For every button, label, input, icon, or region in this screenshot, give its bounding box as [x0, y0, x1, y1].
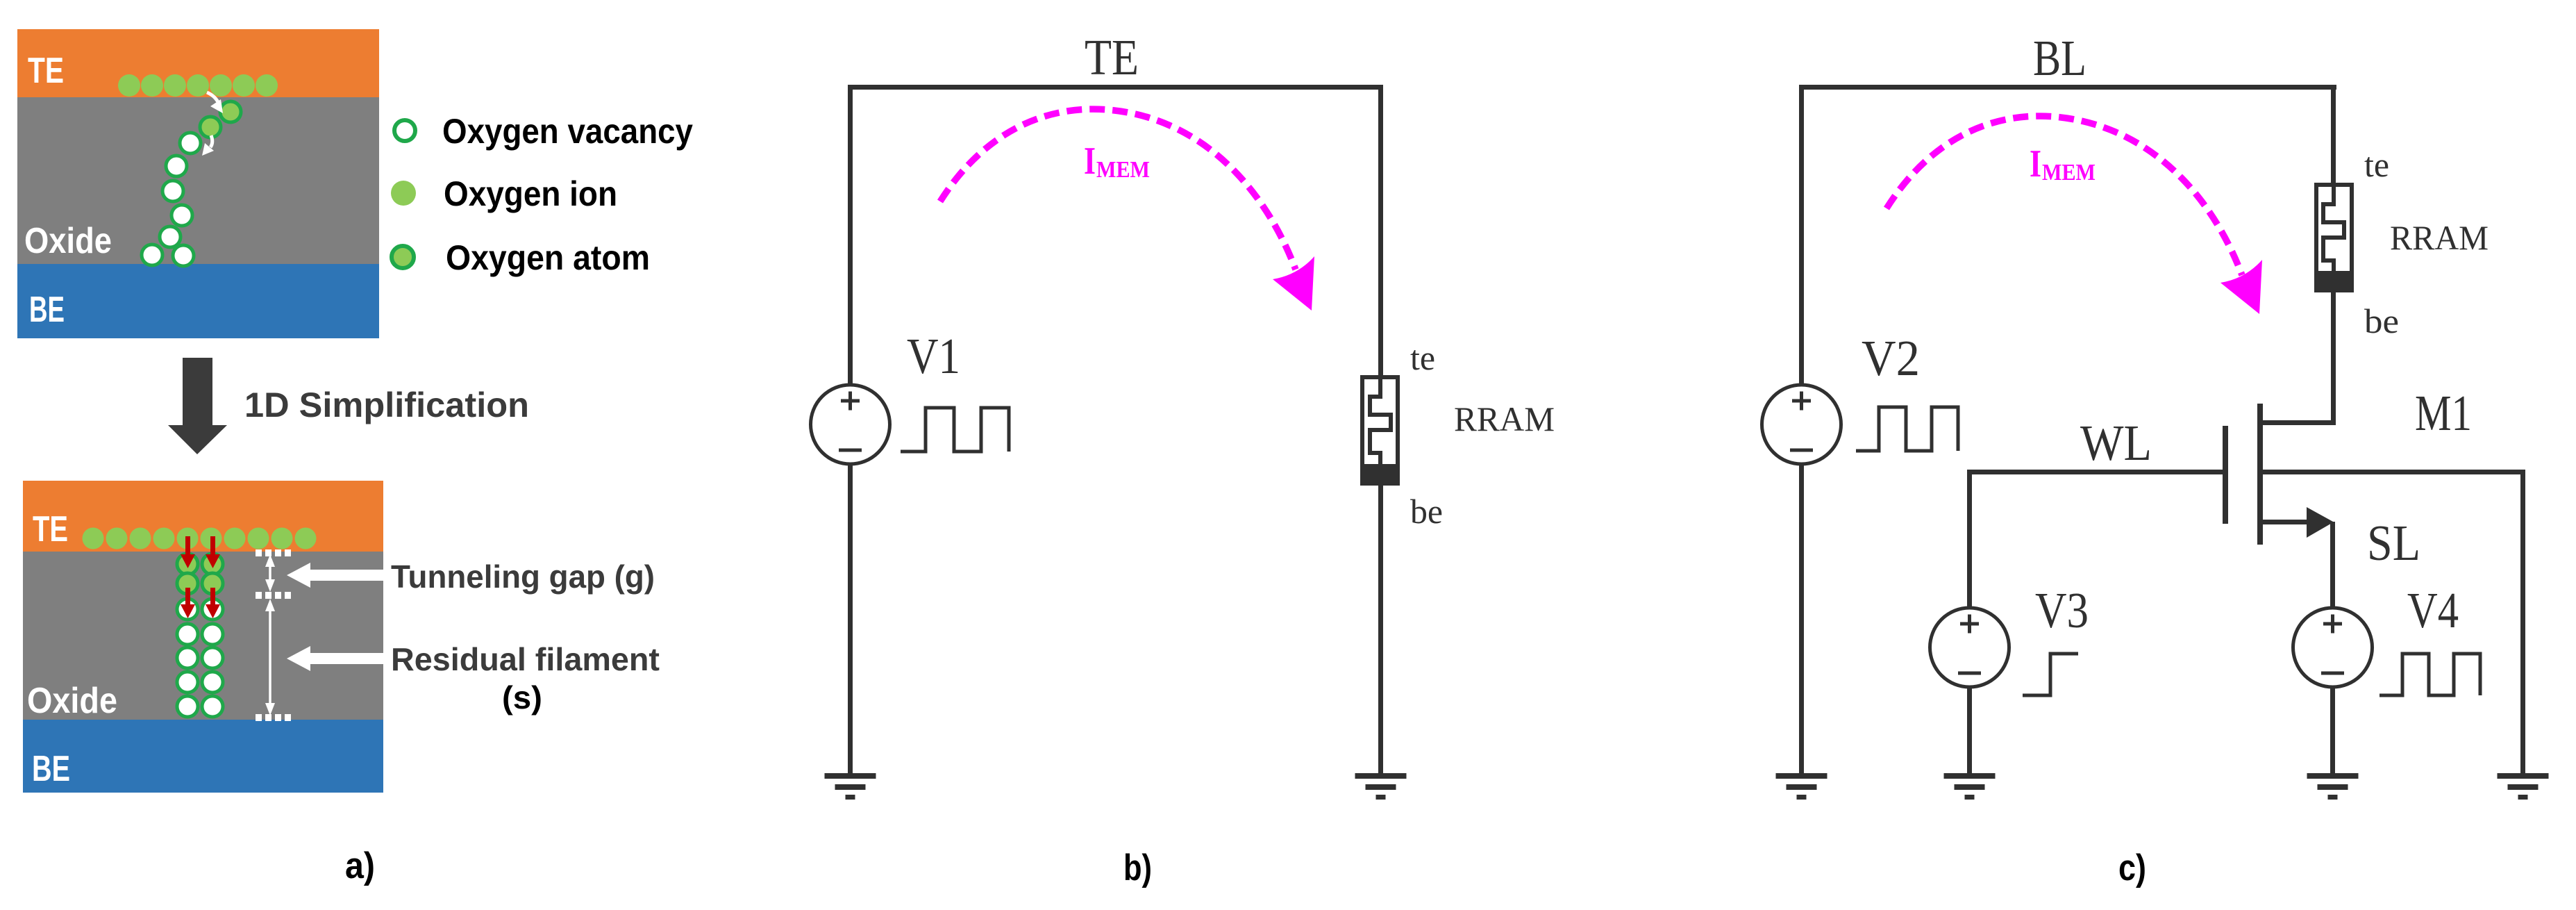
wire: right vertical to RRAM: [1378, 90, 1383, 375]
M1 channel bar: [2257, 404, 2263, 545]
oxygen ion row (upper stack): [118, 74, 278, 97]
svg-text:TE: TE: [28, 51, 64, 91]
red arrows pair 1 (ion to atom): [181, 536, 220, 568]
white block arrow (residual filament): [287, 646, 384, 671]
voltage source V2: [1762, 385, 1841, 464]
wire: V2 to ground: [1799, 464, 1804, 773]
memristor RRAM (panel c): [2316, 185, 2352, 290]
svg-text:(s): (s): [502, 679, 542, 715]
svg-text:BE: BE: [32, 749, 70, 789]
white dashed tick row (bottom boundary): [256, 714, 291, 721]
ground (below V2): [1776, 773, 1828, 800]
svg-text:V4: V4: [2407, 582, 2459, 638]
svg-text:WL: WL: [2080, 415, 2152, 471]
svg-text:SL: SL: [2367, 515, 2420, 571]
IMEM dashed current arc (panel b): [940, 109, 1296, 270]
ground (below V1): [825, 773, 876, 800]
legend: oxygen vacancy symbol: [394, 120, 415, 141]
PANEL B placeholder: [811, 29, 1555, 888]
svg-text:a): a): [345, 845, 375, 886]
legend: oxygen atom symbol: [392, 246, 414, 268]
wire: left vertical to V1: [848, 90, 853, 385]
wire: RRAM to drain of M1: [2331, 292, 2336, 425]
svg-text:I: I: [2030, 142, 2041, 185]
white dashed tick row (top boundary): [256, 549, 291, 556]
ground (below V3): [1944, 773, 1996, 800]
svg-text:I: I: [1084, 140, 1096, 183]
svg-text:be: be: [2364, 301, 2399, 340]
svg-text:b): b): [1123, 847, 1152, 888]
PANEL C placeholder: [1762, 30, 2549, 888]
lower stack Oxide layer (gray): [23, 552, 383, 720]
svg-text:RRAM: RRAM: [2390, 218, 2489, 257]
IMEM arrowhead (panel c): [2220, 260, 2262, 314]
filament columns: oxygen atoms (lower stack): [177, 554, 223, 594]
wire: WL horizontal: [1967, 470, 2223, 474]
svg-text:Oxide: Oxide: [24, 221, 112, 261]
svg-text:TE: TE: [33, 509, 68, 549]
upper stack TE layer (orange): [17, 29, 379, 97]
M1 drain stub: [2257, 420, 2336, 425]
svg-text:Oxygen atom: Oxygen atom: [446, 238, 650, 277]
legend: oxygen ion symbol: [391, 181, 416, 206]
svg-text:te: te: [2364, 145, 2389, 184]
wire: left vertical to V2: [1799, 90, 1804, 385]
voltage source V3: [1930, 608, 2009, 687]
tunneling gap double arrow: [269, 560, 271, 588]
svg-text:te: te: [1410, 338, 1435, 377]
IMEM arrowhead (panel b): [1273, 256, 1314, 311]
M1 gate bar: [2223, 426, 2228, 524]
svg-text:MEM: MEM: [2042, 160, 2096, 185]
svg-text:Oxygen vacancy: Oxygen vacancy: [442, 112, 693, 151]
svg-text:V1: V1: [907, 328, 960, 384]
svg-text:1D Simplification: 1D Simplification: [244, 386, 529, 424]
svg-text:Oxide: Oxide: [27, 681, 117, 721]
svg-text:V3: V3: [2035, 582, 2089, 638]
filament chain: oxygen atoms (upper stack): [200, 101, 241, 138]
svg-text:Residual filament: Residual filament: [391, 641, 660, 677]
svg-text:RRAM: RRAM: [1454, 399, 1555, 438]
svg-text:Tunneling gap (g): Tunneling gap (g): [391, 559, 655, 595]
lower stack TE layer (orange): [23, 481, 383, 552]
svg-text:c): c): [2118, 847, 2146, 888]
filament chain: oxygen vacancies (upper stack): [142, 133, 201, 266]
svg-text:TE: TE: [1085, 29, 1139, 85]
IMEM dashed current arc (panel c): [1887, 116, 2242, 275]
wire: top BL rail: [1799, 85, 2336, 90]
1D simplification arrow: [183, 358, 212, 425]
oxygen ion row (lower stack): [83, 528, 317, 549]
V1 pulse waveform symbol: [901, 408, 1009, 452]
svg-text:V2: V2: [1862, 330, 1920, 386]
V4 pulse waveform symbol: [2380, 654, 2480, 695]
wire: right vertical to RRAM (panel c): [2331, 90, 2336, 183]
wire: top TE rail: [848, 85, 1383, 90]
PANEL A placeholder: [17, 29, 693, 886]
V3 step waveform symbol: [2023, 654, 2078, 695]
wire: WL down to V3: [1967, 474, 1972, 608]
svg-text:MEM: MEM: [1096, 157, 1150, 183]
white dashed tick row (gap boundary): [256, 592, 291, 599]
svg-text:M1: M1: [2415, 385, 2472, 441]
white block arrow (tunneling gap): [287, 563, 384, 588]
filament columns: oxygen vacancies (lower stack): [177, 599, 223, 717]
wire: V1 to ground: [848, 464, 853, 773]
wire: source down to V4: [2330, 522, 2335, 608]
M1 source stub with arrow: [2263, 520, 2308, 524]
svg-text:Oxygen ion: Oxygen ion: [444, 174, 617, 213]
wire: V4 to ground: [2330, 687, 2335, 773]
svg-text:be: be: [1410, 492, 1443, 531]
V2 pulse waveform symbol: [1856, 407, 1958, 451]
lower stack BE layer (blue): [23, 720, 383, 793]
wire: RRAM to ground: [1378, 486, 1383, 773]
upper stack BE layer (blue): [17, 264, 379, 338]
svg-text:BE: BE: [29, 290, 65, 330]
residual filament double arrow: [269, 604, 271, 711]
wire: V3 to ground: [1967, 687, 1972, 773]
white curved arrow (atom to vacancy): [210, 135, 212, 147]
M1 body stub to right rail: [2263, 470, 2525, 474]
wire: right rail down to ground: [2520, 474, 2525, 773]
ground (below V4): [2307, 773, 2359, 800]
voltage source V1: [811, 385, 890, 464]
upper stack Oxide layer (gray): [17, 97, 379, 264]
ground (below RRAM): [1355, 773, 1407, 800]
memristor RRAM (panel b): [1362, 377, 1398, 483]
svg-text:BL: BL: [2033, 30, 2086, 86]
voltage source V4: [2293, 608, 2373, 687]
red arrows pair 2 (atom to vacancy): [181, 588, 220, 618]
ground (body rail): [2498, 773, 2549, 800]
white curved arrow (ion to atom): [207, 92, 219, 104]
